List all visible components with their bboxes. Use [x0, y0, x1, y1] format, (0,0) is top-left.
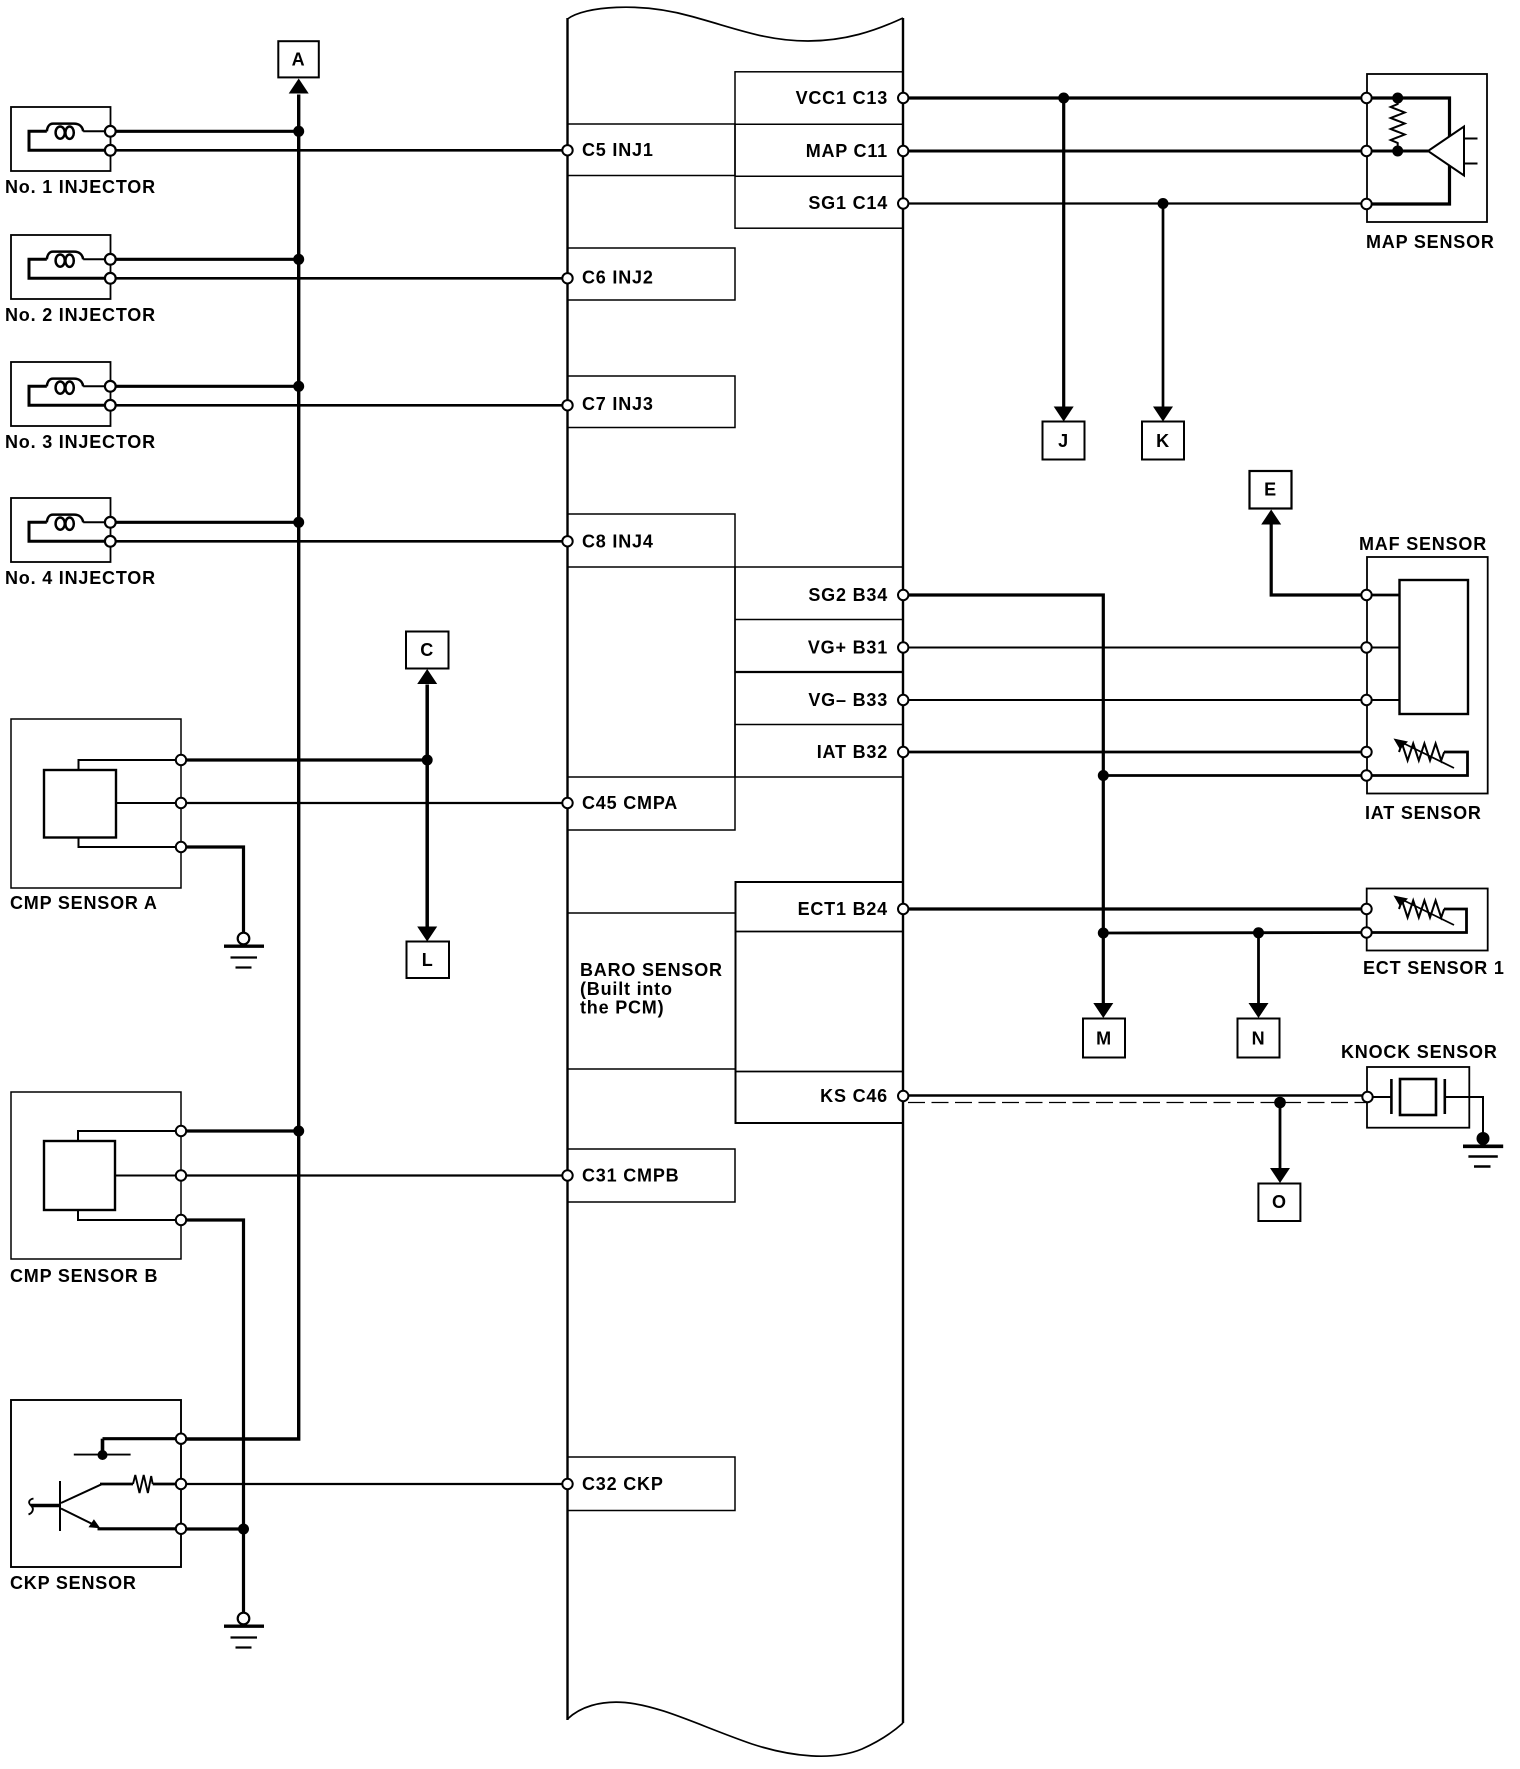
connector arrow N box [1238, 1019, 1280, 1058]
svg-text:C45 CMPA: C45 CMPA [582, 793, 678, 813]
node junction SG2 / IAT return [1098, 770, 1109, 781]
arrowhead to J [1054, 407, 1074, 422]
ECT internal return [1367, 909, 1467, 933]
svg-text:CMP SENSOR B: CMP SENSOR B [10, 1266, 158, 1286]
arrowhead to A [289, 79, 309, 94]
PCM connector body left edge (wire) [566, 18, 568, 1720]
PCM pin box C31 CMPB [568, 1149, 736, 1202]
PCM pin box C6 INJ2 [568, 248, 736, 300]
injector No.3 [5, 362, 156, 452]
ground CMP A [224, 933, 264, 968]
wire C to L vertical [425, 685, 429, 928]
arrowhead to E [1261, 510, 1281, 525]
svg-text:No. 2 INJECTOR: No. 2 INJECTOR [5, 305, 156, 325]
ECT sensor box [1367, 889, 1488, 951]
node junction CMP B / CKP ground [238, 1524, 249, 1535]
label ECT SENSOR 1 [1363, 958, 1505, 978]
node junction inj2/bus [293, 254, 304, 265]
pin circle C31 CMPB [562, 1170, 572, 1180]
ground knock sensor [1463, 1132, 1503, 1167]
svg-text:No. 3 INJECTOR: No. 3 INJECTOR [5, 432, 156, 452]
label IAT SENSOR [1365, 803, 1482, 823]
wire CKP ground to common ground [181, 1527, 244, 1530]
IAT thermistor [1394, 739, 1455, 769]
svg-text:CKP SENSOR: CKP SENSOR [10, 1573, 137, 1593]
svg-text:M: M [1096, 1029, 1112, 1049]
injector No.1 [5, 107, 156, 197]
CMP sensor A box [11, 719, 181, 888]
svg-text:No. 1 INJECTOR: No. 1 INJECTOR [5, 177, 156, 197]
pin circle C7 INJ3 [562, 400, 572, 410]
svg-text:VCC1 C13: VCC1 C13 [796, 88, 888, 108]
wire injector4 drive to bus [111, 521, 299, 524]
arrowhead to K [1153, 407, 1173, 422]
connector arrow O box [1258, 1184, 1300, 1222]
IAT internal return [1367, 752, 1468, 776]
label MAP SENSOR [1366, 232, 1495, 252]
PCM pin table C8 INJ4 / BARO column [568, 514, 736, 830]
wire injector3 signal to C7 INJ3 [111, 404, 568, 407]
pin circle C6 INJ2 [562, 273, 572, 283]
MAF internal stubs [1367, 595, 1400, 700]
svg-text:BARO SENSOR: BARO SENSOR [580, 960, 723, 980]
svg-text:ECT SENSOR 1: ECT SENSOR 1 [1363, 958, 1505, 978]
wire drop to O [1279, 1103, 1282, 1169]
arrowhead to O [1270, 1168, 1290, 1183]
CKP sensor box [11, 1400, 181, 1567]
wire injector1 signal to C5 INJ1 [111, 149, 568, 152]
svg-text:VG+ B31: VG+ B31 [808, 638, 888, 658]
arrowhead to N [1249, 1003, 1269, 1018]
CKP pin circles [176, 1434, 186, 1535]
svg-text:C6 INJ2: C6 INJ2 [582, 268, 654, 288]
label CKP SENSOR [10, 1573, 137, 1593]
CMP B internal wires [78, 1131, 181, 1220]
svg-text:L: L [422, 950, 434, 970]
svg-text:No. 4 INJECTOR: No. 4 INJECTOR [5, 568, 156, 588]
pin circle C8 INJ4 [562, 536, 572, 546]
wire injector4 signal to C8 INJ4 [111, 540, 568, 543]
svg-text:J: J [1058, 431, 1069, 451]
svg-text:O: O [1272, 1192, 1287, 1212]
node junction CMP A / C-L line [422, 755, 433, 766]
svg-text:C8 INJ4: C8 INJ4 [582, 532, 654, 552]
svg-text:MAP SENSOR: MAP SENSOR [1366, 232, 1495, 252]
PCM pin box C32 CKP [568, 1457, 736, 1511]
wire injector2 signal to C6 INJ2 [111, 277, 568, 280]
wire CKP signal to C32 CKP [181, 1483, 568, 1485]
wire injector3 drive to bus [111, 385, 299, 388]
MAF/IAT pin circles [1361, 590, 1371, 781]
wire CMP B signal to C31 CMPB [181, 1174, 568, 1176]
MAF element [1400, 580, 1469, 714]
svg-text:C5 INJ1: C5 INJ1 [582, 140, 654, 160]
PCM pin box C5 INJ1 [568, 124, 736, 176]
pin circle C32 CKP [562, 1479, 572, 1489]
arrowhead to C [417, 669, 437, 684]
svg-text:CMP SENSOR A: CMP SENSOR A [10, 893, 158, 913]
wire CMP A power to C/L [181, 758, 427, 761]
PCM connector body right edge (wire) [902, 18, 904, 1723]
svg-text:MAF SENSOR: MAF SENSOR [1359, 534, 1487, 554]
ground CMP B / CKP [224, 1613, 264, 1648]
PCM torn bottom edge [568, 1702, 904, 1756]
MAP internal resistor [1391, 98, 1405, 151]
label KNOCK SENSOR [1341, 1042, 1498, 1062]
injector1 terminal circles [105, 126, 116, 156]
wire CMP B power to bus [181, 1129, 299, 1132]
MAF sensor box [1367, 557, 1488, 794]
connector arrow M box [1083, 1019, 1125, 1058]
PCM torn top edge [568, 7, 904, 41]
MAP internal supply loop [1367, 98, 1450, 204]
svg-text:VG– B33: VG– B33 [808, 690, 888, 710]
connector arrow A box [278, 41, 319, 77]
MAP sensor box [1367, 74, 1487, 222]
wire drop to K [1162, 204, 1165, 408]
node junction SG2 / ECT return [1098, 928, 1109, 939]
svg-text:(Built into: (Built into [580, 979, 673, 999]
node junction ECT / N drop [1253, 927, 1264, 938]
node junction VCC1 / J drop [1058, 93, 1069, 104]
wire IAT return [1103, 774, 1366, 777]
injector4 terminal circles [105, 517, 116, 547]
CMP sensor A element [44, 770, 116, 838]
pin circle MAP C11 [898, 146, 908, 156]
MAP amplifier stubs [1464, 139, 1478, 164]
svg-text:A: A [292, 50, 306, 70]
PCM pin table SG2/VG+/VG-/IAT [735, 567, 903, 777]
svg-text:C: C [420, 640, 434, 660]
svg-text:KNOCK SENSOR: KNOCK SENSOR [1341, 1042, 1498, 1062]
ECT thermistor [1394, 896, 1455, 926]
pin circle IAT B32 [898, 747, 908, 757]
node junction inj1/bus [293, 126, 304, 137]
wire bus A vertical [181, 95, 299, 1440]
knock sensor box [1367, 1067, 1469, 1128]
svg-text:E: E [1264, 480, 1277, 500]
wire injector2 drive to bus [111, 258, 299, 261]
wire drop to J [1062, 98, 1065, 407]
injector2 terminal circles [105, 254, 116, 284]
node junction inj3/bus [293, 381, 304, 392]
CKP transistor element [29, 1481, 102, 1531]
svg-text:N: N [1252, 1029, 1266, 1049]
PCM pin table ECT1/KS [736, 882, 904, 1123]
wire SG1 C14 to MAP sensor [903, 202, 1367, 204]
node junction MAP resistor bottom [1392, 146, 1403, 157]
pin circle VG+ B31 [898, 642, 908, 652]
svg-text:MAP C11: MAP C11 [806, 141, 888, 161]
MAP sensor pin circles [1361, 93, 1371, 209]
connector arrow K box [1142, 422, 1184, 460]
pin circle KS C46 [898, 1091, 908, 1101]
svg-text:SG2 B34: SG2 B34 [808, 585, 888, 605]
PCM pin box C7 INJ3 [568, 376, 736, 428]
connector arrow E box [1250, 471, 1292, 509]
label MAF SENSOR [1359, 534, 1487, 554]
wire SG2 B34 trunk [903, 595, 1103, 1004]
wire drop to N [1257, 933, 1260, 1004]
svg-text:KS C46: KS C46 [820, 1086, 888, 1106]
PCM pin table VCC1/MAP/SG1 [735, 72, 903, 228]
pin circle VCC1 C13 [898, 93, 908, 103]
wire CMP B ground [181, 1220, 244, 1613]
svg-text:the PCM): the PCM) [580, 998, 664, 1018]
svg-text:K: K [1156, 431, 1170, 451]
knock piezo element [1368, 1079, 1484, 1133]
wire CMP A ground [181, 847, 244, 933]
CMP A internal wires [79, 760, 182, 847]
svg-text:C31 CMPB: C31 CMPB [582, 1166, 679, 1186]
ECT pin circles [1361, 904, 1371, 938]
node junction inj4/bus [293, 517, 304, 528]
arrowhead to L [417, 927, 437, 942]
wire IAT B32 to IAT sensor [903, 751, 1367, 754]
connector arrow J box [1043, 422, 1085, 460]
wire KS shield (dashed) [908, 1102, 1367, 1104]
connector arrow L box [407, 942, 450, 979]
wire E from MAF power [1271, 524, 1366, 595]
pin circle ECT1 B24 [898, 904, 908, 914]
pin circle VG- B33 [898, 695, 908, 705]
svg-text:C7 INJ3: C7 INJ3 [582, 394, 654, 414]
svg-text:IAT B32: IAT B32 [817, 742, 888, 762]
wire CMP A signal to C45 CMPA [181, 802, 568, 804]
pin circle SG1 C14 [898, 198, 908, 208]
injector3 terminal circles [105, 381, 116, 411]
wire VCC1 C13 to MAP sensor [903, 96, 1367, 99]
svg-text:IAT SENSOR: IAT SENSOR [1365, 803, 1482, 823]
arrowhead to M [1093, 1003, 1113, 1018]
CKP internal resistor [98, 1475, 182, 1529]
wire MAP C11 to MAP sensor [903, 150, 1428, 153]
CMP sensor B element [44, 1141, 115, 1210]
wire VG+ B31 to MAF [903, 647, 1367, 649]
node junction KS / O drop [1274, 1097, 1286, 1109]
node junction MAP resistor top [1392, 93, 1403, 104]
svg-text:SG1 C14: SG1 C14 [808, 193, 888, 213]
connector arrow C box [406, 632, 449, 669]
injector No.2 [5, 235, 156, 325]
wire KS C46 to knock sensor (solid) [903, 1094, 1368, 1096]
label CMP SENSOR B [10, 1266, 158, 1286]
CMP B pin circles [176, 1126, 186, 1225]
wire injector1 drive to bus [111, 130, 299, 133]
BARO SENSOR (built into PCM) box [568, 913, 736, 1069]
node junction CMP B / bus [293, 1126, 304, 1137]
node junction SG1 / K drop [1158, 198, 1169, 209]
wire ECT return to trunk [1103, 931, 1366, 934]
label CMP SENSOR A [10, 893, 158, 913]
wire ECT1 B24 to ECT sensor [903, 907, 1367, 910]
svg-text:ECT1 B24: ECT1 B24 [798, 899, 888, 919]
pin circle SG2 B34 [898, 590, 908, 600]
wire VG- B33 to MAF [903, 699, 1367, 701]
CMP sensor B box [11, 1092, 181, 1259]
MAP amplifier triangle [1428, 127, 1464, 176]
svg-text:C32 CKP: C32 CKP [582, 1474, 664, 1494]
pin circle C45 CMPA [562, 798, 572, 808]
CKP internal shield plate [74, 1439, 181, 1460]
CMP A pin circles [176, 755, 186, 852]
injector No.4 [5, 498, 156, 588]
pin circle C5 INJ1 [562, 145, 572, 155]
knock pin circle [1362, 1092, 1372, 1102]
